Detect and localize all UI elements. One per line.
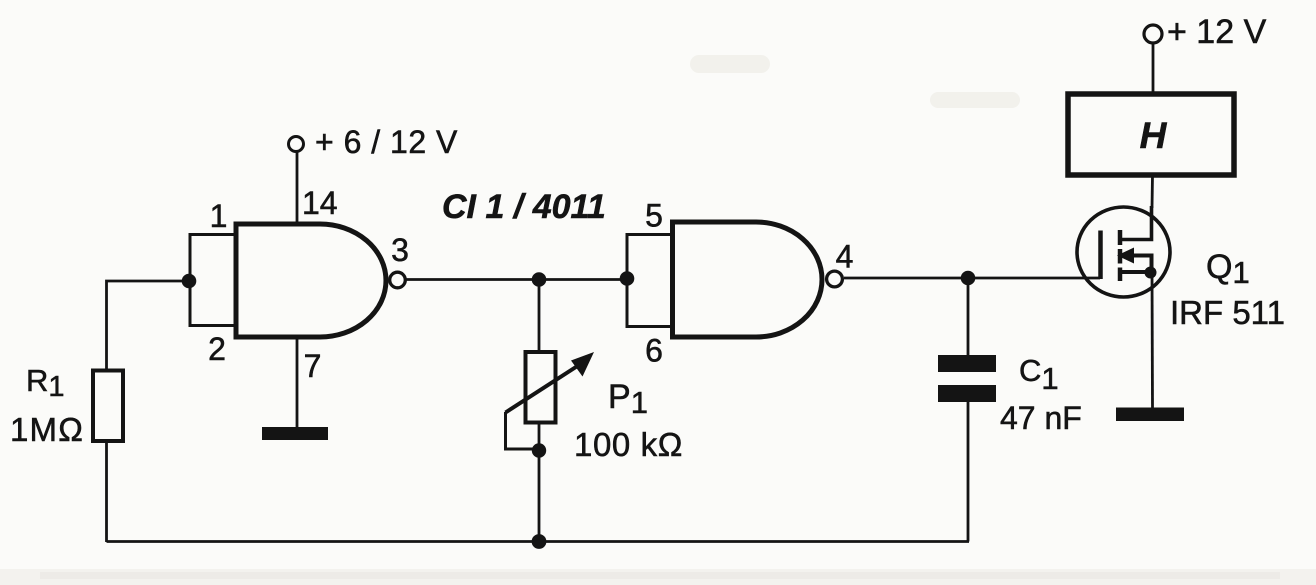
node gate2 input junction — [620, 271, 635, 286]
Q1 body arrow — [1129, 256, 1152, 273]
node C1 top junction — [961, 271, 976, 286]
svg-text:6: 6 — [645, 333, 663, 369]
Q1 channel bar segments — [1118, 230, 1123, 245]
svg-text:Q1: Q1 — [1206, 248, 1250, 290]
wire +12V to H — [1152, 43, 1155, 94]
resistor R1 — [93, 371, 123, 442]
input bracket pins 5-6 — [627, 235, 673, 327]
wire wiper node to rail — [538, 451, 541, 543]
ground mosfet — [1116, 408, 1184, 422]
wire gate1 out to gate2 in — [406, 278, 627, 281]
svg-text:3: 3 — [391, 232, 409, 268]
wire R1 bottom to rail — [105, 443, 108, 542]
node bottom rail junction — [532, 534, 547, 549]
ground gate1 — [262, 427, 328, 440]
P1 wiper return bracket — [506, 412, 540, 449]
terminal +12V — [1144, 25, 1162, 43]
svg-text:5: 5 — [645, 198, 663, 234]
P1 wiper arrow — [506, 365, 580, 413]
capacitor C1 plates — [938, 355, 996, 372]
svg-text:47 nF: 47 nF — [1000, 400, 1082, 436]
node source junction — [1145, 267, 1157, 279]
node feedback junction — [182, 274, 197, 289]
wire feedback to R1 top — [107, 281, 190, 369]
Q1 drain tap — [1120, 206, 1152, 240]
svg-text:2: 2 — [208, 331, 226, 367]
wire H to drain — [1151, 175, 1154, 208]
wire pin7 to ground — [296, 337, 299, 428]
wire down to C1 — [967, 278, 970, 356]
svg-text:4: 4 — [836, 239, 854, 275]
wire bottom rail — [107, 540, 970, 543]
node P1 wiper junction — [532, 443, 546, 457]
output bubble pin3 — [390, 272, 406, 288]
wire down to P1 — [538, 280, 541, 351]
Q1 source tap — [1120, 270, 1151, 274]
wire source to ground — [1151, 273, 1154, 409]
input bracket pins 1-2 — [190, 235, 236, 326]
wire gate2 out to mosfet gate — [844, 277, 1100, 280]
Q1 gate bar — [1098, 231, 1103, 280]
svg-text:7: 7 — [304, 348, 322, 384]
node P1 top junction — [532, 272, 547, 287]
potentiometer P1 body — [526, 352, 556, 423]
nand gate U1a body — [236, 224, 386, 337]
svg-text:1MΩ: 1MΩ — [10, 411, 84, 448]
svg-text:100 kΩ: 100 kΩ — [574, 426, 683, 463]
svg-text:IRF 511: IRF 511 — [1170, 294, 1285, 331]
svg-text:+ 6 / 12 V: + 6 / 12 V — [315, 124, 458, 160]
nand gate U1b body — [673, 222, 823, 337]
svg-text:+ 12 V: + 12 V — [1167, 13, 1267, 51]
wire P1 bottom to wiper node — [538, 424, 541, 451]
terminal +6/12V — [289, 137, 304, 152]
output bubble pin4 — [827, 271, 843, 287]
svg-text:14: 14 — [302, 185, 338, 221]
svg-text:1: 1 — [210, 198, 228, 234]
svg-text:H: H — [1140, 115, 1168, 156]
load H box — [1068, 94, 1234, 175]
svg-text:CI 1 / 4011: CI 1 / 4011 — [442, 188, 606, 226]
mosfet Q1 body circle — [1077, 207, 1170, 297]
wire C1 bottom to rail — [967, 402, 970, 542]
svg-text:P1: P1 — [608, 378, 648, 420]
wire pin14 to supply — [296, 152, 299, 222]
